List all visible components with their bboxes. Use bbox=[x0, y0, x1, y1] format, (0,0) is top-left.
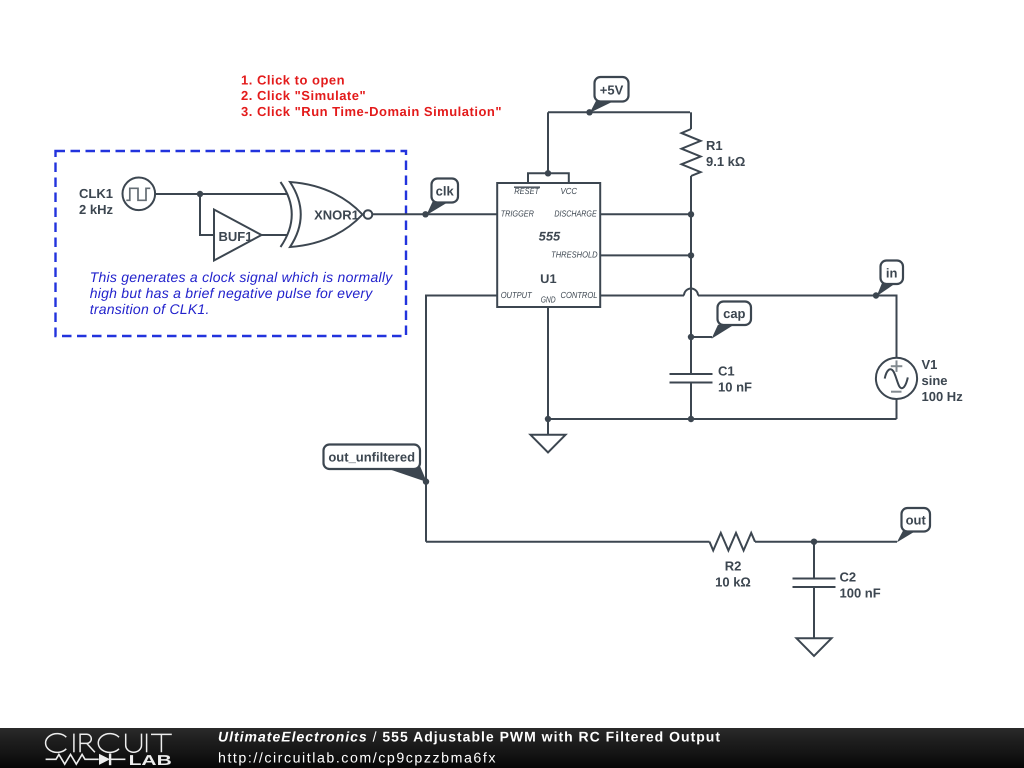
svg-text:XNOR1: XNOR1 bbox=[314, 207, 359, 222]
wire node down to C2 bbox=[813, 542, 815, 579]
flag label clk bbox=[426, 179, 458, 216]
wire node to XNOR1 top input bbox=[200, 193, 288, 195]
svg-text:V1: V1 bbox=[922, 357, 938, 372]
svg-text:DISCHARGE: DISCHARGE bbox=[554, 209, 596, 219]
ground bus wire bbox=[548, 418, 897, 420]
wire cap stub bbox=[691, 336, 712, 338]
wire V1 bottom to bus bbox=[896, 399, 898, 419]
IC U1 555 bbox=[497, 183, 600, 307]
svg-text:out_unfiltered: out_unfiltered bbox=[328, 450, 415, 465]
svg-text:OUTPUT: OUTPUT bbox=[501, 290, 533, 300]
wire DISCHARGE to vertical bbox=[600, 213, 691, 215]
annotation text (blue italic) bbox=[90, 269, 394, 317]
svg-text:THRESHOLD: THRESHOLD bbox=[551, 249, 598, 259]
svg-text:CLK1: CLK1 bbox=[79, 186, 113, 201]
wire R2 to out bbox=[755, 541, 897, 543]
wire BUF1 output to XNOR1 bottom input bbox=[262, 234, 289, 236]
wire node down to BUF1 input bbox=[200, 194, 214, 235]
node bus left bbox=[545, 416, 551, 422]
svg-text:high but has a brief negative: high but has a brief negative pulse for … bbox=[90, 285, 374, 301]
CircuitLab logo: CIRCUIT (thin drawn letters) bbox=[46, 734, 172, 753]
wire R1 bottom to DISCHARGE junction bbox=[690, 176, 692, 214]
svg-text:9.1 kΩ: 9.1 kΩ bbox=[706, 154, 745, 169]
power flag +5V bbox=[590, 77, 629, 113]
label CLK1 value bbox=[79, 186, 113, 217]
wire U1 GND pin down to bus bbox=[547, 307, 549, 419]
resistor R1 bbox=[682, 129, 701, 176]
label R1 value bbox=[706, 138, 745, 169]
square-wave source CLK1 bbox=[123, 178, 156, 211]
CircuitLab logo: resistor-diode glyph bbox=[46, 754, 126, 766]
svg-text:10 kΩ: 10 kΩ bbox=[715, 574, 751, 589]
svg-text:VCC: VCC bbox=[561, 186, 578, 196]
svg-text:clk: clk bbox=[436, 184, 455, 199]
svg-text:1. Click to open: 1. Click to open bbox=[241, 73, 345, 88]
node DISCHARGE junction bbox=[688, 211, 694, 217]
wire THRESHOLD to vertical bbox=[600, 254, 691, 256]
node +5V attachment bbox=[586, 109, 592, 115]
svg-text:2. Click "Simulate": 2. Click "Simulate" bbox=[241, 88, 366, 103]
wire in node to V1 top corner bbox=[876, 296, 897, 359]
svg-text:2 kHz: 2 kHz bbox=[79, 202, 113, 217]
node junction at CLK1 output bbox=[197, 191, 203, 197]
svg-text:transition of CLK1.: transition of CLK1. bbox=[90, 301, 210, 317]
flag label out bbox=[897, 508, 930, 542]
svg-text:3. Click "Run Time-Domain Simu: 3. Click "Run Time-Domain Simulation" bbox=[241, 104, 502, 119]
node C1 bottom bbox=[688, 416, 694, 422]
annotation box (blue dashed) bbox=[56, 151, 407, 336]
node clk bbox=[422, 211, 428, 217]
svg-text:100 nF: 100 nF bbox=[840, 585, 881, 600]
XNOR gate XNOR1 bbox=[281, 182, 363, 247]
svg-text:UltimateElectronics / 555 Adju: UltimateElectronics / 555 Adjustable PWM… bbox=[218, 729, 721, 745]
flag label in bbox=[877, 261, 903, 297]
buffer BUF1 bbox=[214, 210, 262, 261]
flag label cap bbox=[712, 302, 752, 339]
vertical wire DISCHARGE to C1 bbox=[690, 214, 692, 374]
wire XNOR1 output to U1 TRIGGER bbox=[372, 213, 497, 215]
wire CONTROL with hop over vertical bbox=[600, 295, 684, 297]
node THRESHOLD junction bbox=[688, 252, 694, 258]
wire C2 bottom to ground bbox=[813, 587, 815, 638]
node C2 top bbox=[811, 539, 817, 545]
svg-text:10 nF: 10 nF bbox=[718, 379, 752, 394]
svg-text:555: 555 bbox=[539, 230, 562, 244]
wire +5V rail bbox=[548, 111, 690, 113]
voltage source V1 bbox=[876, 358, 917, 399]
wires RESET/VCC bracket bbox=[528, 173, 569, 183]
label R2 value bbox=[715, 559, 751, 590]
node cap bbox=[688, 334, 694, 340]
svg-text:sine: sine bbox=[922, 373, 948, 388]
wire to R2 bbox=[426, 541, 710, 543]
wire rail corner down to R1 bbox=[690, 112, 692, 129]
svg-text:out: out bbox=[906, 513, 927, 528]
wire CLK1 output to node bbox=[155, 193, 200, 195]
wire U1 OUTPUT left and down bbox=[426, 296, 497, 542]
capacitor C1 bbox=[670, 374, 713, 383]
label C1 value bbox=[718, 364, 752, 395]
red instruction note bbox=[241, 73, 502, 120]
ground under U1 bbox=[531, 419, 566, 452]
svg-text:CONTROL: CONTROL bbox=[561, 290, 598, 300]
svg-text:+5V: +5V bbox=[600, 82, 624, 97]
svg-text:U1: U1 bbox=[540, 272, 556, 286]
label C2 value bbox=[840, 570, 881, 601]
node in bbox=[873, 292, 879, 298]
resistor R2 bbox=[710, 533, 756, 551]
svg-text:C1: C1 bbox=[718, 364, 735, 379]
svg-text:This generates a clock signal: This generates a clock signal which is n… bbox=[90, 269, 394, 285]
wire C1 bottom to bus bbox=[690, 383, 692, 420]
svg-text:in: in bbox=[886, 266, 898, 281]
svg-text:LAB: LAB bbox=[129, 753, 172, 768]
svg-text:TRIGGER: TRIGGER bbox=[501, 209, 535, 219]
svg-text:GND: GND bbox=[541, 295, 556, 305]
node out_unfiltered bbox=[423, 478, 429, 484]
node at bracket bbox=[545, 170, 551, 176]
capacitor C2 bbox=[793, 579, 836, 588]
svg-text:R1: R1 bbox=[706, 138, 723, 153]
XNOR1 inversion bubble bbox=[364, 210, 373, 219]
ground under C2 bbox=[797, 638, 832, 656]
svg-text:cap: cap bbox=[723, 306, 745, 321]
svg-text:BUF1: BUF1 bbox=[219, 229, 253, 244]
svg-text:C2: C2 bbox=[840, 570, 857, 585]
svg-text:R2: R2 bbox=[725, 559, 742, 574]
svg-text:100 Hz: 100 Hz bbox=[922, 389, 964, 404]
label V1 value bbox=[922, 357, 964, 404]
wire bracket up to +5V rail bbox=[547, 112, 549, 173]
svg-text:http://circuitlab.com/cp9cpzzb: http://circuitlab.com/cp9cpzzbma6fx bbox=[218, 751, 497, 767]
flag label out_unfiltered bbox=[324, 445, 427, 483]
